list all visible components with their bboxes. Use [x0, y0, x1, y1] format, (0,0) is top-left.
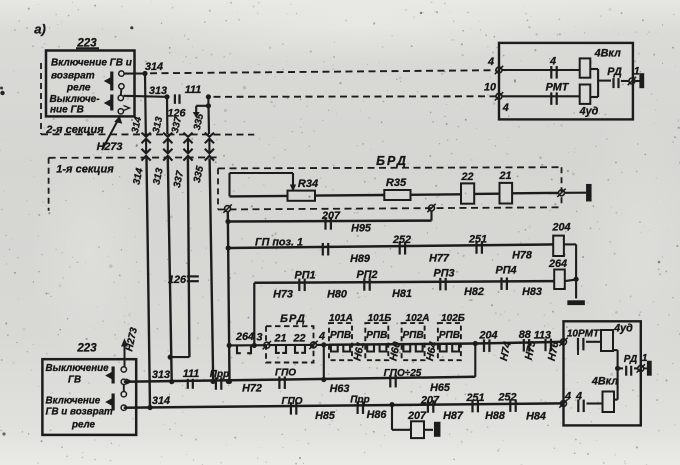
svg-text:4Вкл: 4Вкл: [594, 48, 622, 60]
svg-text:Включение ГВ и: Включение ГВ и: [51, 58, 132, 69]
svg-text:207: 207: [407, 410, 427, 422]
svg-text:Н87: Н87: [443, 410, 464, 422]
svg-text:2-я секция: 2-я секция: [45, 124, 104, 136]
svg-text:111: 111: [185, 84, 201, 96]
svg-text:РП1: РП1: [295, 270, 316, 282]
svg-text:ГПО: ГПО: [275, 368, 296, 379]
svg-text:ГП поз. 1: ГП поз. 1: [255, 237, 303, 249]
svg-text:1-я секция: 1-я секция: [56, 164, 114, 176]
svg-text:реле: реле: [66, 83, 91, 94]
svg-text:264: 264: [235, 331, 254, 343]
svg-text:1: 1: [634, 66, 640, 78]
svg-text:Выключение: Выключение: [46, 363, 110, 374]
svg-text:313: 313: [152, 369, 170, 381]
svg-text:Н77: Н77: [429, 253, 450, 265]
svg-text:Прр: Прр: [350, 395, 369, 406]
svg-text:4: 4: [318, 331, 325, 343]
svg-text:4: 4: [564, 391, 571, 403]
svg-text:Н72: Н72: [242, 383, 262, 395]
svg-text:207: 207: [321, 210, 341, 222]
svg-text:223: 223: [76, 343, 97, 355]
svg-text:207: 207: [420, 395, 440, 407]
svg-text:22: 22: [460, 171, 473, 183]
svg-text:113: 113: [534, 330, 551, 342]
svg-text:4Вкл: 4Вкл: [591, 376, 619, 388]
svg-text:ГВ и возврат: ГВ и возврат: [46, 407, 114, 418]
svg-text:Н85: Н85: [315, 410, 336, 422]
svg-text:4: 4: [487, 56, 494, 68]
svg-text:252: 252: [497, 392, 516, 404]
svg-text:101А: 101А: [329, 313, 353, 324]
svg-text:264: 264: [548, 258, 567, 270]
svg-text:Н82: Н82: [464, 286, 484, 298]
svg-text:10: 10: [484, 82, 496, 94]
svg-text:251: 251: [465, 392, 484, 404]
svg-text:204: 204: [478, 330, 497, 342]
svg-text:РПВ: РПВ: [439, 330, 460, 341]
svg-text:Выключе-: Выключе-: [50, 94, 101, 105]
svg-text:Н81: Н81: [392, 288, 412, 300]
svg-text:ГВ: ГВ: [68, 375, 81, 386]
svg-text:252: 252: [392, 234, 411, 246]
svg-text:4: 4: [549, 56, 556, 68]
svg-text:РП2: РП2: [357, 269, 378, 281]
svg-text:РД: РД: [624, 354, 638, 365]
svg-text:126: 126: [168, 274, 187, 286]
svg-text:21: 21: [273, 333, 286, 345]
svg-text:Включение: Включение: [46, 396, 101, 407]
svg-text:314: 314: [152, 395, 170, 407]
svg-text:Н63: Н63: [330, 383, 350, 395]
svg-text:313: 313: [149, 85, 167, 97]
svg-text:РП4: РП4: [496, 265, 517, 277]
svg-text:204: 204: [551, 222, 570, 234]
svg-text:Н84: Н84: [526, 411, 546, 423]
svg-text:R34: R34: [298, 178, 318, 190]
svg-text:4уд: 4уд: [613, 323, 633, 335]
svg-text:БРД: БРД: [280, 313, 306, 325]
svg-text:21: 21: [498, 170, 511, 182]
svg-text:Н89: Н89: [350, 253, 370, 265]
svg-text:РПВ: РПВ: [366, 330, 387, 341]
svg-text:Прр: Прр: [210, 369, 229, 380]
svg-text:4: 4: [502, 102, 509, 114]
svg-text:БРД: БРД: [376, 154, 408, 168]
svg-text:реле: реле: [71, 420, 96, 431]
svg-text:ние ГВ: ние ГВ: [50, 105, 84, 116]
svg-text:Н73: Н73: [273, 289, 293, 301]
svg-text:РПВ: РПВ: [402, 330, 423, 341]
svg-text:ГПО: ГПО: [281, 396, 302, 407]
svg-text:Н95: Н95: [351, 223, 372, 235]
svg-text:РПВ: РПВ: [330, 330, 351, 341]
svg-text:РМТ: РМТ: [546, 81, 570, 93]
svg-text:Н78: Н78: [512, 250, 532, 262]
svg-text:111: 111: [183, 368, 199, 380]
svg-text:22: 22: [292, 333, 305, 345]
svg-text:РД: РД: [607, 66, 622, 78]
svg-text:Н273: Н273: [97, 141, 123, 153]
svg-text:Н88: Н88: [485, 410, 505, 422]
svg-text:ГПО÷25: ГПО÷25: [384, 368, 422, 379]
svg-text:4уд: 4уд: [579, 106, 599, 118]
svg-text:а): а): [34, 22, 46, 37]
svg-text:Н86: Н86: [367, 409, 388, 421]
svg-text:314: 314: [145, 61, 163, 73]
svg-text:102Б: 102Б: [441, 313, 465, 324]
svg-text:Н83: Н83: [522, 286, 542, 298]
svg-text:102А: 102А: [406, 313, 430, 324]
svg-text:Н80: Н80: [327, 289, 347, 301]
svg-text:возврат: возврат: [51, 71, 95, 82]
svg-text:88: 88: [519, 329, 531, 341]
svg-text:РП3: РП3: [434, 268, 455, 280]
svg-text:101Б: 101Б: [368, 313, 392, 324]
svg-text:R35: R35: [386, 177, 407, 189]
svg-text:251: 251: [468, 234, 487, 246]
svg-text:Н65: Н65: [430, 382, 451, 394]
svg-text:3: 3: [256, 332, 262, 344]
